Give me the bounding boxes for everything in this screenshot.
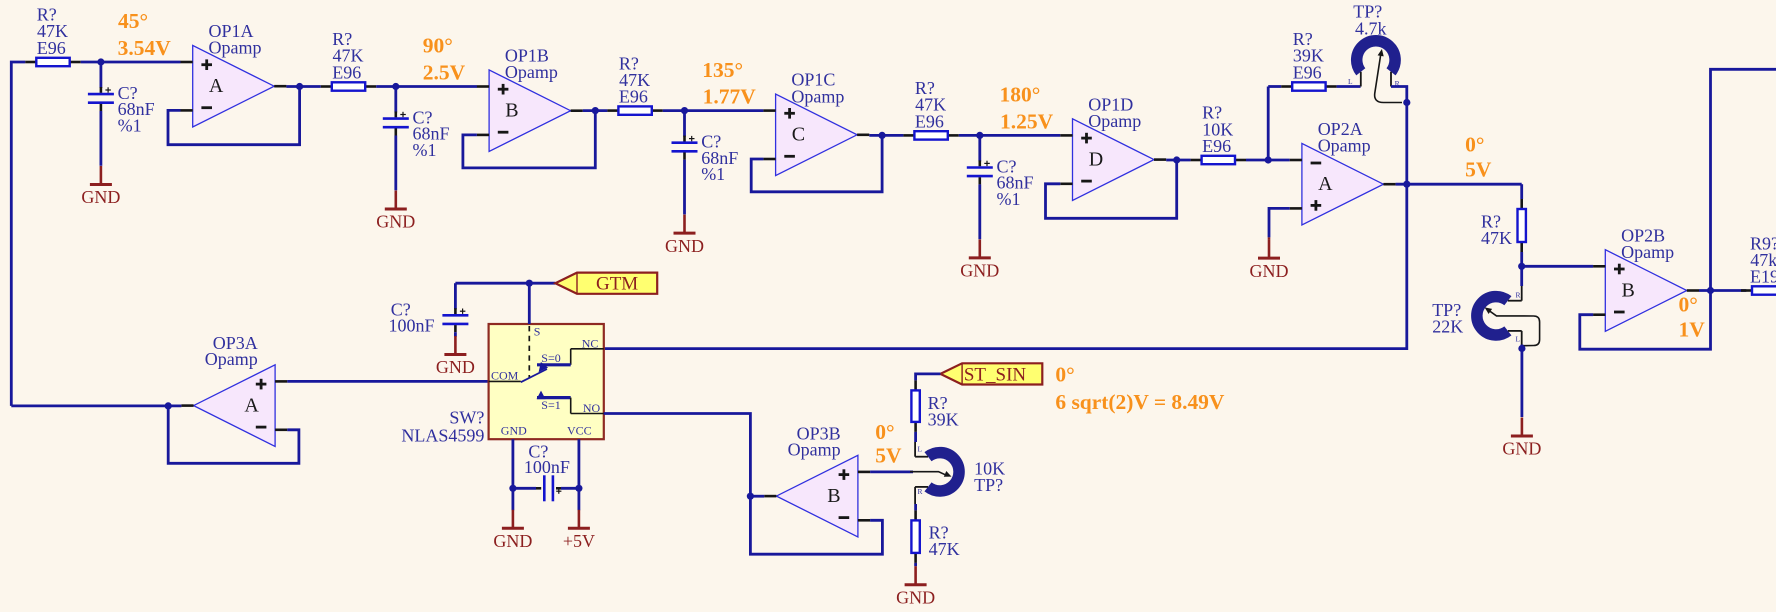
OP3B output pin stub <box>764 495 776 498</box>
OP2A minus mark <box>1311 162 1322 165</box>
op-amp OP1C body <box>776 94 858 176</box>
capacitor C2 68nF <box>394 112 397 118</box>
OP2B plus mark <box>1614 268 1625 271</box>
OP1A pin + (input stub) <box>181 61 193 64</box>
svg-text:L: L <box>1516 335 1521 344</box>
svg-text:GND: GND <box>665 236 704 256</box>
SW1 pin S select line (dashed) <box>528 326 530 378</box>
svg-text:%1: %1 <box>413 140 437 160</box>
svg-text:ST_SIN: ST_SIN <box>964 364 1027 385</box>
svg-text:1.25V: 1.25V <box>1000 109 1054 133</box>
trimmer potentiometer TP2 22K <box>1477 297 1508 335</box>
OP3A output pin stub <box>181 404 193 407</box>
OP1D output pin stub <box>1154 158 1166 161</box>
ground under R10 <box>914 566 917 585</box>
wire decoupling between GND and VCC pins <box>513 487 536 490</box>
wire TP3 bottom terminal to R10 <box>915 486 928 488</box>
svg-text:C: C <box>792 124 805 146</box>
svg-text:%1: %1 <box>701 164 725 184</box>
resistor R7 47K vertical <box>1520 199 1523 209</box>
svg-text:A: A <box>244 394 259 416</box>
svg-text:47K: 47K <box>1481 228 1512 248</box>
resistor R4 47K <box>903 134 914 137</box>
wire OP1D output to R5 <box>1166 159 1190 162</box>
OP3A plus mark <box>256 383 267 386</box>
OP3A minus mark <box>256 426 267 429</box>
OP3A pin - (input stub) <box>275 428 287 431</box>
wire output column down to switch NC net <box>604 184 1407 348</box>
svg-text:GND: GND <box>896 587 935 607</box>
capacitor C6 100nF decoupling <box>536 487 541 490</box>
ground under C2 <box>394 191 397 210</box>
node D4b junction <box>976 132 983 139</box>
wire GTM node to flag tip <box>529 282 555 285</box>
svg-text:E192: E192 <box>1750 267 1776 287</box>
svg-text:GTM: GTM <box>596 274 638 295</box>
wire R4 to node D4b <box>959 134 1061 137</box>
OP3B output junction <box>747 493 754 500</box>
wire SW1 VCC pin down <box>578 439 581 488</box>
svg-text:R: R <box>918 487 923 496</box>
wire OP3B feedback loop <box>750 496 882 554</box>
TP2 terminal stubs and connection wires <box>1520 266 1523 286</box>
wire OP2B output up and off right edge <box>1711 69 1776 290</box>
svg-text:GND: GND <box>1250 261 1289 281</box>
svg-text:1V: 1V <box>1679 318 1706 342</box>
wire OP2B feedback loop <box>1580 291 1711 350</box>
OP2A output pin stub <box>1383 183 1395 186</box>
svg-text:GND: GND <box>436 357 475 377</box>
svg-text:2.5V: 2.5V <box>423 61 466 85</box>
wire OP1B output to node C3 <box>583 109 608 112</box>
svg-text:D: D <box>1089 148 1103 170</box>
wire OP2B output to junction <box>1699 289 1746 292</box>
wire OP1D feedback loop <box>1046 160 1177 218</box>
OP2B pin - (input stub) <box>1593 313 1605 316</box>
svg-text:E96: E96 <box>619 87 648 107</box>
ground under TP2 <box>1521 418 1524 437</box>
OP1C pin - (input stub) <box>763 158 775 161</box>
svg-text:NLAS4599: NLAS4599 <box>401 426 484 446</box>
wire C5 to ground <box>454 332 457 337</box>
svg-text:Opamp: Opamp <box>209 38 262 58</box>
svg-text:GND: GND <box>81 187 120 207</box>
wire R2 to node B2 <box>376 85 477 88</box>
SW1 pin NO internal <box>570 398 572 414</box>
svg-text:4.7k: 4.7k <box>1355 18 1387 38</box>
wire C4 to ground <box>978 184 981 239</box>
svg-text:22K: 22K <box>1432 317 1463 337</box>
svg-text:0°: 0° <box>875 420 894 444</box>
wire C3 to ground <box>683 160 686 215</box>
TP3 wiper arm <box>910 472 947 476</box>
OP2A pin - (input stub) <box>1290 159 1302 162</box>
svg-text:100nF: 100nF <box>524 457 570 477</box>
svg-text:Opamp: Opamp <box>1088 111 1141 131</box>
net flag GTM <box>555 273 657 294</box>
trimmer potentiometer TP1 4.7k <box>1357 41 1395 72</box>
OP3A output junction <box>165 402 172 409</box>
wire down to R7 <box>1520 184 1523 199</box>
wire OP1C output to node D4 <box>869 134 903 137</box>
net flag ST_SIN <box>940 363 1042 384</box>
svg-text:E96: E96 <box>1202 136 1231 156</box>
op-amp OP2A body <box>1302 143 1384 225</box>
svg-text:5V: 5V <box>1465 158 1492 182</box>
analog switch SW1 NLAS4599 body <box>489 324 604 439</box>
wire OP3A + input to switch COM <box>287 380 488 383</box>
TP2 bottom junction <box>1518 345 1525 352</box>
op-amp OP3B body <box>776 455 858 537</box>
wire node D4b down to C4 <box>978 135 981 161</box>
wire TP1 right terminal to output column <box>1391 87 1407 103</box>
wire OP3B output to junction <box>750 495 764 498</box>
TP1 wiper arm <box>1375 54 1402 103</box>
svg-text:5V: 5V <box>875 443 902 467</box>
op-amp OP1A body <box>193 45 275 127</box>
op-amp OP1D body <box>1073 119 1155 201</box>
svg-text:100nF: 100nF <box>388 316 434 336</box>
OP1A minus mark <box>201 106 212 109</box>
svg-text:E96: E96 <box>332 62 361 82</box>
svg-text:6 sqrt(2)V = 8.49V: 6 sqrt(2)V = 8.49V <box>1055 390 1224 414</box>
svg-text:GND: GND <box>501 424 527 438</box>
ground under C1 <box>100 166 103 185</box>
svg-text:B: B <box>1622 279 1635 301</box>
ground under C3 <box>683 215 686 234</box>
svg-text:A: A <box>209 75 224 97</box>
SW1 throw S=1 contact <box>537 396 571 399</box>
wire C2 to ground <box>394 136 397 191</box>
resistor R2 47K <box>321 85 332 88</box>
OP1C plus mark <box>784 112 795 115</box>
wire TP2 bottom to ground <box>1521 345 1524 418</box>
wire R10 to ground <box>914 563 917 566</box>
OP3B pin - (input stub) <box>858 519 870 522</box>
OP2A pin + (input stub) <box>1290 207 1302 210</box>
svg-text:E96: E96 <box>37 38 66 58</box>
wire GND pin to ground <box>512 488 515 510</box>
svg-text:E96: E96 <box>915 111 944 131</box>
wire GTM node down to C5 top <box>454 283 457 309</box>
svg-text:B: B <box>505 100 518 122</box>
OP1B output junction <box>592 107 599 114</box>
wire OP3B + input to TP3 wiper <box>870 470 913 473</box>
resistor R9 47k at right edge <box>1741 289 1752 292</box>
SW1 pin NC internal <box>571 348 604 350</box>
svg-text:0°: 0° <box>1465 133 1484 157</box>
svg-text:SW?: SW? <box>449 408 484 428</box>
SW1 VCC pin junction <box>575 485 582 492</box>
OP1B pin + (input stub) <box>477 85 489 88</box>
capacitor C3 68nF <box>683 136 686 142</box>
capacitor C1 68nF <box>100 87 103 93</box>
svg-text:COM: COM <box>491 369 519 383</box>
svg-text:1.77V: 1.77V <box>703 85 757 109</box>
OP2B minus mark <box>1614 311 1625 314</box>
svg-text:39K: 39K <box>928 409 959 429</box>
wire R6 to trimmer TP1 left terminal <box>1337 85 1361 88</box>
wire OP1C feedback loop <box>751 135 882 191</box>
wire S pin up to GTM node <box>528 283 531 324</box>
svg-text:%1: %1 <box>118 115 142 135</box>
wire OP2A + input to ground <box>1269 208 1290 237</box>
svg-text:R: R <box>1516 291 1521 300</box>
OP1C output pin stub <box>857 134 869 137</box>
wire node B2 down to C2 <box>394 87 397 113</box>
node B2 junction <box>392 83 399 90</box>
svg-text:135°: 135° <box>702 58 743 82</box>
OP3B plus mark <box>839 473 850 476</box>
resistor R6 39K <box>1281 85 1292 88</box>
OP1D pin - (input stub) <box>1060 183 1072 186</box>
svg-text:180°: 180° <box>1000 83 1041 107</box>
wire node A down to C1 <box>100 62 103 88</box>
wire node to OP2B + input <box>1522 265 1593 268</box>
op-amp OP2B body <box>1605 250 1687 332</box>
OP2B output pin stub <box>1687 289 1699 292</box>
resistor R8 39K vertical <box>914 380 917 390</box>
capacitor C5 100nF <box>454 308 457 314</box>
TP1 terminal stubs <box>1360 72 1362 87</box>
resistor R1 47K <box>25 61 36 64</box>
svg-text:A: A <box>1318 173 1333 195</box>
svg-text:S: S <box>534 325 541 339</box>
svg-text:%1: %1 <box>997 189 1021 209</box>
svg-text:GND: GND <box>1502 439 1541 459</box>
wire OP3A feedback loop <box>168 406 299 463</box>
TP1 wiper junction <box>1403 99 1410 106</box>
wire switch NO to OP3B output node <box>604 414 751 497</box>
svg-text:Opamp: Opamp <box>205 349 258 369</box>
OP1A pin - (input stub) <box>181 109 193 112</box>
wire left rail from OP3A output up to R1 input <box>11 62 25 406</box>
wire SW1 GND pin down <box>512 439 515 488</box>
wire feedback branch up to R6 <box>1267 87 1270 161</box>
wire R7 to OP2B + node <box>1520 252 1523 266</box>
SW1 GND pin junction <box>509 485 516 492</box>
node E junction (feedback tap) <box>1265 156 1272 163</box>
SW1 pole from COM <box>489 380 521 382</box>
GTM node junction <box>526 280 533 287</box>
svg-text:B: B <box>827 485 840 507</box>
OP1A plus mark <box>201 63 212 66</box>
svg-text:GND: GND <box>960 261 999 281</box>
wire OP1B feedback loop <box>463 111 595 168</box>
SW1 throw S=0 contact <box>537 363 571 366</box>
svg-text:45°: 45° <box>118 9 148 33</box>
capacitor C4 68nF <box>978 160 981 166</box>
OP2B output junction <box>1707 287 1714 294</box>
wire OP3A output to left rail <box>11 404 181 407</box>
OP2B + input node junction <box>1518 263 1525 270</box>
svg-text:Opamp: Opamp <box>505 62 558 82</box>
wire OP1A output to node B <box>286 85 320 88</box>
OP1D minus mark <box>1081 180 1092 183</box>
svg-text:TP?: TP? <box>974 475 1003 495</box>
TP2 wiper arm <box>1488 310 1540 346</box>
OP3B minus mark <box>839 516 850 519</box>
OP3B pin + (input stub) <box>858 471 870 474</box>
svg-text:Opamp: Opamp <box>1318 136 1371 156</box>
svg-text:NC: NC <box>582 337 599 351</box>
resistor R5 10K <box>1191 159 1202 162</box>
svg-text:GND: GND <box>493 531 532 551</box>
wire R1 to node A <box>81 61 181 64</box>
wire OP1A feedback loop <box>168 87 300 145</box>
resistor R3 47K <box>607 109 618 112</box>
OP1B pin - (input stub) <box>477 134 489 137</box>
OP1B output pin stub <box>571 109 583 112</box>
OP1A output junction <box>296 83 303 90</box>
op-amp OP1B body <box>489 70 570 152</box>
wire GTM node left to C5 <box>455 282 529 285</box>
wire OP2A output to the right <box>1396 183 1522 186</box>
wire output column down to OP2A output <box>1405 103 1408 185</box>
ground under OP2A + input <box>1268 240 1271 259</box>
wire ST_SIN to R8 top <box>916 374 941 381</box>
wire R5 to OP2A inverting input <box>1246 159 1290 162</box>
svg-text:E96: E96 <box>1293 62 1322 82</box>
wire node C3b down to C3 <box>683 111 686 137</box>
OP1A output pin stub <box>274 85 286 88</box>
wire C1 to ground <box>100 111 103 166</box>
svg-text:Opamp: Opamp <box>1621 242 1674 262</box>
svg-text:90°: 90° <box>423 34 453 58</box>
ground under SW1 <box>512 510 515 529</box>
ground under C5 <box>454 336 457 355</box>
svg-text:0°: 0° <box>1055 363 1074 387</box>
power +5V under SW1 <box>578 510 581 529</box>
wire R3 to node C3b <box>663 109 764 112</box>
svg-text:L: L <box>1348 77 1353 86</box>
OP2A output junction <box>1403 181 1410 188</box>
OP1B plus mark <box>498 88 509 91</box>
node A junction <box>97 58 104 65</box>
OP1C minus mark <box>784 155 795 158</box>
trimmer potentiometer TP3 10K <box>928 453 959 491</box>
svg-text:47K: 47K <box>929 539 960 559</box>
OP1D pin + (input stub) <box>1060 134 1072 137</box>
op-amp OP3A body <box>194 365 276 447</box>
resistor R10 47K vertical <box>914 510 917 520</box>
svg-text:+5V: +5V <box>563 531 595 551</box>
svg-text:VCC: VCC <box>567 424 592 438</box>
svg-text:Opamp: Opamp <box>788 440 841 460</box>
OP1C output junction <box>879 132 886 139</box>
wire VCC pin to +5V <box>578 488 581 510</box>
OP1C pin + (input stub) <box>763 109 775 112</box>
node C3b junction <box>681 107 688 114</box>
svg-text:L: L <box>918 445 923 454</box>
svg-text:S=1: S=1 <box>541 398 560 412</box>
svg-text:NO: NO <box>583 401 601 415</box>
OP1B minus mark <box>498 131 509 134</box>
ground under C4 <box>978 239 981 258</box>
wire R8 to TP3 top terminal <box>914 432 917 442</box>
OP2B pin + (input stub) <box>1593 265 1605 268</box>
OP3A pin + (input stub) <box>275 380 287 383</box>
OP2A plus mark <box>1311 204 1322 207</box>
svg-text:GND: GND <box>376 212 415 232</box>
svg-text:3.54V: 3.54V <box>118 36 172 60</box>
OP1D plus mark <box>1081 137 1092 140</box>
svg-text:Opamp: Opamp <box>791 86 844 106</box>
svg-text:S=0: S=0 <box>541 351 560 365</box>
OP1D output junction <box>1173 156 1180 163</box>
svg-text:0°: 0° <box>1679 293 1698 317</box>
